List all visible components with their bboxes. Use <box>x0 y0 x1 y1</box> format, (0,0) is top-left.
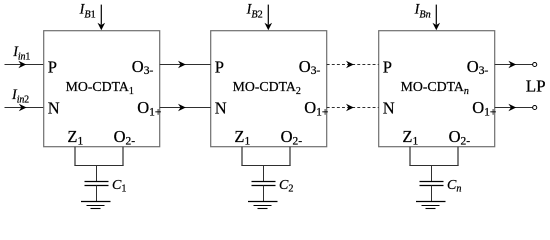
svg-text:O3-: O3- <box>299 57 321 77</box>
svg-text:O3-: O3- <box>132 57 154 77</box>
svg-text:IB2: IB2 <box>246 2 263 21</box>
svg-text:P: P <box>215 57 224 76</box>
svg-text:MO-CDTA1: MO-CDTA1 <box>66 79 134 97</box>
svg-text:N: N <box>215 99 227 118</box>
wire bias current IBn into top of U3 <box>433 5 441 31</box>
capacitor C1 <box>85 182 109 186</box>
svg-text:Z1: Z1 <box>67 127 83 148</box>
svg-text:C1: C1 <box>112 178 126 195</box>
svg-text:O2-: O2- <box>449 127 471 148</box>
svg-text:O2-: O2- <box>114 127 136 148</box>
wire O3- of U3 to LP output terminal <box>495 61 533 69</box>
wire O1+ of U3 to LP output terminal <box>495 104 533 112</box>
wire Z1 terminal stub of U1 <box>74 147 76 166</box>
dashed wire O1+ of U2 toward N of U3 <box>327 104 379 112</box>
svg-text:C2: C2 <box>279 178 293 195</box>
dashed wire O3- of U2 toward P of U3 <box>327 61 379 69</box>
block MO-CDTA2 U2 box <box>211 31 327 147</box>
ground <box>81 202 111 209</box>
svg-text:O1+: O1+ <box>472 98 496 118</box>
svg-text:Z1: Z1 <box>402 127 418 148</box>
wire bias current IB1 into top of U1 <box>98 5 106 31</box>
wire capacitor C1 to ground <box>96 186 98 202</box>
wire joining Z1 and O2- of U2 <box>241 165 290 167</box>
svg-text:MO-CDTAn: MO-CDTAn <box>401 79 469 97</box>
wire O2- terminal stub of U3 <box>457 147 459 166</box>
svg-text:O1+: O1+ <box>304 98 328 118</box>
svg-text:IBn: IBn <box>414 2 431 21</box>
terminal node circle top LP output <box>533 62 537 66</box>
wire capacitor C2 to ground <box>263 186 265 202</box>
block MO-CDTA1 U1 box <box>44 31 160 147</box>
svg-text:P: P <box>383 57 392 76</box>
wire Iin2 input to N of U1 <box>5 104 44 112</box>
wire O2- terminal stub of U2 <box>289 147 291 166</box>
svg-text:LP: LP <box>526 77 546 96</box>
wire joining Z1 and O2- of U1 <box>74 165 123 167</box>
svg-text:Iin1: Iin1 <box>12 44 30 63</box>
block MO-CDTAn U3 box <box>379 31 495 147</box>
wire node to capacitor Cn <box>431 165 433 181</box>
wire joining Z1 and O2- of U3 <box>409 165 458 167</box>
ground <box>248 202 278 209</box>
svg-text:N: N <box>48 99 60 118</box>
capacitor Cn <box>420 182 444 186</box>
wire O3- of U1 to P of U2 <box>160 61 211 69</box>
svg-text:MO-CDTA2: MO-CDTA2 <box>233 79 301 97</box>
wire O1+ of U1 to N of U2 <box>160 104 211 112</box>
capacitor C2 <box>252 182 276 186</box>
svg-text:Cn: Cn <box>447 178 461 195</box>
wire node to capacitor C2 <box>263 165 265 181</box>
svg-text:P: P <box>48 57 57 76</box>
wire node to capacitor C1 <box>96 165 98 181</box>
wire Z1 terminal stub of U2 <box>241 147 243 166</box>
svg-text:O3-: O3- <box>467 57 489 77</box>
svg-text:O2-: O2- <box>281 127 303 148</box>
terminal node circle bottom LP output <box>533 105 537 109</box>
svg-text:Z1: Z1 <box>234 127 250 148</box>
svg-text:O1+: O1+ <box>137 98 161 118</box>
wire bias current IB2 into top of U2 <box>265 5 273 31</box>
wire O2- terminal stub of U1 <box>122 147 124 166</box>
ground <box>416 202 446 209</box>
wire Iin1 input to P of U1 <box>5 61 44 69</box>
wire capacitor Cn to ground <box>431 186 433 202</box>
svg-text:IB1: IB1 <box>79 2 96 21</box>
svg-text:Iin2: Iin2 <box>11 87 29 106</box>
wire Z1 terminal stub of U3 <box>409 147 411 166</box>
svg-text:N: N <box>383 99 395 118</box>
